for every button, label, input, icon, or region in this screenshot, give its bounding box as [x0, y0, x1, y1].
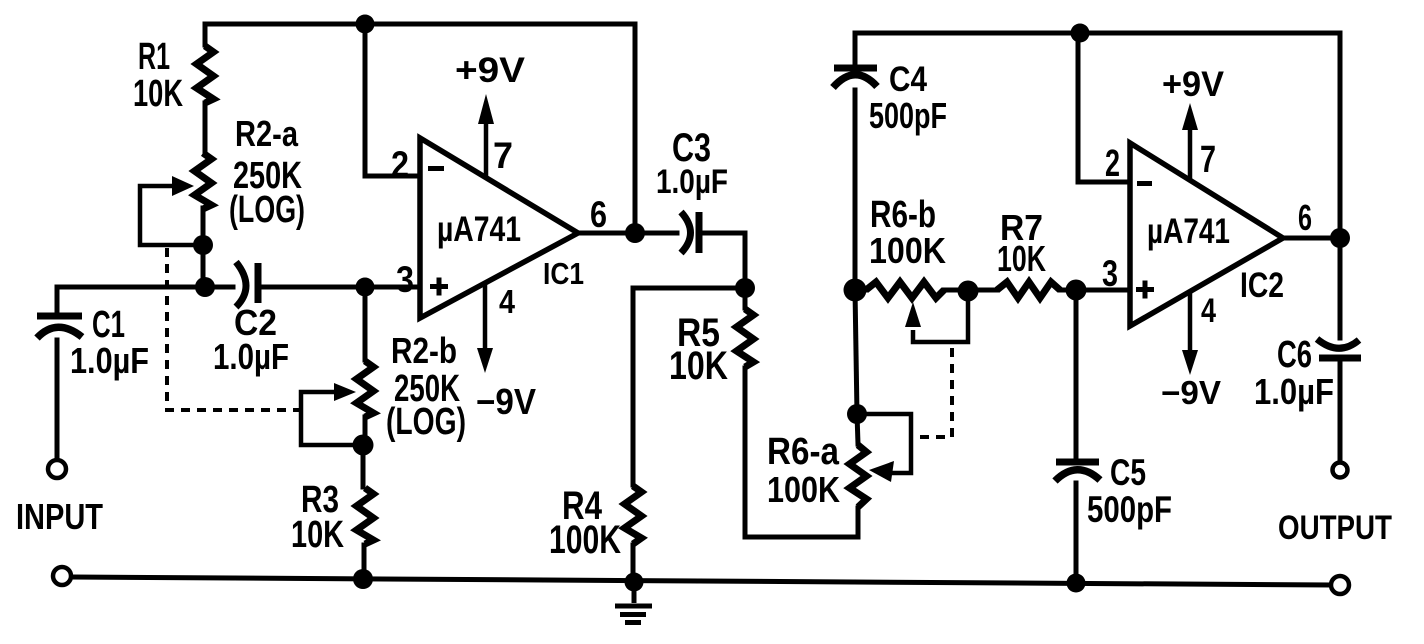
svg-text:10K: 10K: [133, 73, 183, 115]
wire R6-b right lead: [944, 288, 968, 293]
op-amp U2 IC2 triangle: [1130, 143, 1283, 326]
capacitor C3 curved plate: [681, 212, 691, 253]
node junction R6-a wiper: [847, 404, 867, 424]
svg-text:2: 2: [1105, 143, 1120, 185]
wire top feedback bus IC1: [205, 22, 635, 27]
wire IC2 feedback drop: [1338, 33, 1343, 238]
svg-text:6: 6: [1298, 197, 1312, 238]
wire R7 right lead to pin3 node: [1060, 288, 1076, 293]
node junction R6-b / R7: [958, 281, 979, 302]
svg-text:−9V: −9V: [476, 381, 536, 422]
wire IC2 output node down to C6: [1338, 238, 1343, 338]
svg-text:4: 4: [499, 283, 516, 320]
wire C6 to OUTPUT terminal: [1338, 362, 1343, 458]
wire C2 to IC1 pin 3: [261, 285, 420, 290]
svg-text:R2-a: R2-a: [235, 113, 299, 154]
potentiometer R6-b wiper arrowhead: [905, 302, 921, 327]
wire C1 top stub: [55, 287, 60, 315]
OUTPUT terminal lower: [1331, 576, 1349, 594]
wire C1 to INPUT terminal: [55, 340, 60, 458]
op-amp IC1 minus sign: [428, 166, 444, 171]
svg-text:R6-a: R6-a: [767, 431, 840, 473]
node junction R2-b wiper / R3: [353, 435, 374, 456]
capacitor C4 curved plate: [833, 75, 877, 88]
wire C4 top stub: [853, 33, 858, 64]
svg-text:10K: 10K: [291, 514, 344, 556]
resistor R5: [737, 309, 754, 367]
svg-text:µA741: µA741: [437, 210, 521, 249]
svg-text:100K: 100K: [549, 518, 621, 562]
svg-text:(LOG): (LOG): [386, 401, 466, 443]
resistor R7: [997, 282, 1060, 298]
svg-text:10K: 10K: [669, 344, 728, 388]
node junction C4 / R6-b: [844, 279, 867, 302]
potentiometer R6-b wiper arm and link to right terminal: [913, 291, 968, 342]
wire junction to R3 top: [361, 445, 366, 487]
potentiometer R2-b wiper arrowhead: [334, 383, 356, 401]
potentiometer R6-a element: [850, 445, 867, 507]
svg-text:µA741: µA741: [1147, 212, 1230, 251]
svg-text:C4: C4: [889, 60, 927, 99]
svg-text:R1: R1: [138, 36, 170, 78]
potentiometer R2-a element: [195, 153, 212, 209]
wire pin3 node to IC2 pin 3: [1076, 288, 1130, 293]
power -9V arrow IC2 pin 4: [1188, 291, 1193, 352]
OUTPUT terminal upper: [1333, 463, 1348, 478]
resistor R3: [357, 488, 374, 544]
svg-text:3: 3: [396, 259, 414, 300]
wire R6-b left lead: [855, 288, 866, 293]
svg-text:R2-b: R2-b: [391, 330, 457, 371]
wire R4 top lead: [631, 288, 636, 485]
svg-text:10K: 10K: [997, 238, 1046, 279]
wire feedback drop to IC1 output node: [633, 24, 638, 233]
potentiometer R2-b element: [357, 361, 374, 417]
svg-text:7: 7: [1200, 139, 1216, 181]
wire IC1 output to C3: [578, 231, 677, 236]
wire R5 top lead: [743, 288, 748, 308]
potentiometer R6-b element: [866, 282, 944, 298]
wire C3 to R5 column: [702, 233, 745, 288]
wire mid bus left segment (C1 to C2): [57, 285, 233, 290]
wire bottom ground bus: [73, 577, 1330, 585]
svg-text:1.0µF: 1.0µF: [656, 163, 728, 201]
wire R1 bottom to R2-a top: [203, 103, 208, 153]
power +9V arrow IC2 pin 7: [1188, 130, 1193, 180]
op-amp IC2 minus sign: [1137, 181, 1152, 186]
node junction C5 / ground bus: [1067, 574, 1086, 593]
capacitor C6 bottom plate: [1319, 355, 1361, 362]
wire R1 top lead to top bus: [203, 24, 208, 45]
wire pin3 node down to R2-b: [363, 287, 368, 360]
svg-text:+9V: +9V: [1162, 65, 1225, 104]
svg-text:100K: 100K: [767, 469, 840, 510]
wire pin3 node down to C5: [1074, 290, 1079, 459]
capacitor C4 top plate: [834, 65, 877, 72]
resistor R1: [197, 46, 214, 103]
node junction ground: [625, 573, 644, 592]
power -9V arrow IC1 pin 4: [483, 283, 488, 350]
wire R3 bottom to ground bus: [362, 545, 367, 579]
wire R6-b node down to R6-a top junction: [855, 290, 857, 414]
svg-text:(LOG): (LOG): [229, 189, 305, 231]
node junction R2-a wiper: [193, 235, 213, 255]
capacitor C1 top plate: [37, 313, 82, 320]
svg-text:100K: 100K: [869, 230, 946, 271]
wire R4 bottom to ground node: [631, 545, 636, 582]
capacitor C3 straight plate: [696, 212, 703, 253]
node junction C3 / R5: [735, 278, 755, 298]
op-amp IC2 plus sign: [1136, 281, 1154, 299]
wire R4 node to R5 node: [633, 286, 745, 291]
resistor R4: [625, 486, 642, 544]
wire top bus IC2: [855, 31, 1340, 36]
INPUT terminal lower: [53, 567, 71, 585]
svg-text:4: 4: [1201, 292, 1216, 330]
wire C4 bottom to R6-b node: [853, 90, 858, 290]
svg-text:+9V: +9V: [455, 51, 526, 90]
wire R6-a bottom lead: [856, 508, 861, 537]
capacitor C6 curved plate: [1317, 339, 1359, 348]
wire R5 bottom down and right to R6-a bottom: [745, 368, 858, 537]
power +9V arrow IC1 pin 7: [484, 124, 489, 176]
node junction top bus / pin2 branch: [356, 15, 375, 34]
dashed gang line R6-b to R6-a: [916, 348, 952, 437]
potentiometer R6-a wiper arrowhead: [869, 461, 894, 482]
node junction top right bus / pin2 branch IC2: [1071, 24, 1090, 43]
op-amp IC1 plus sign: [430, 278, 448, 296]
potentiometer R6-a wiper arm and link from top junction: [856, 414, 911, 473]
svg-text:1.0µF: 1.0µF: [1254, 371, 1334, 412]
svg-text:−9V: −9V: [1161, 374, 1221, 411]
wire IC2 output: [1283, 236, 1340, 241]
svg-text:6: 6: [590, 194, 607, 235]
capacitor C5 curved plate: [1055, 470, 1100, 481]
potentiometer R2-a wiper arrowhead: [172, 176, 194, 196]
svg-text:1.0µF: 1.0µF: [70, 340, 149, 381]
svg-text:C6: C6: [1277, 334, 1312, 376]
ground symbol: [615, 582, 652, 623]
wire R7 left lead: [968, 288, 997, 293]
wire R6-a top junction to zigzag: [857, 414, 858, 444]
svg-text:IC2: IC2: [1240, 266, 1284, 305]
svg-text:3: 3: [1102, 253, 1118, 294]
svg-text:C5: C5: [1110, 452, 1146, 493]
node junction IC1 output: [625, 223, 645, 243]
wire R2-b bottom to junction: [363, 417, 368, 445]
INPUT terminal upper: [48, 460, 66, 478]
wire node to IC2 pin 2: [1078, 33, 1130, 182]
wire node A to IC1 pin 2: [365, 24, 420, 176]
svg-text:INPUT: INPUT: [16, 496, 103, 537]
capacitor C2 curved plate: [236, 262, 246, 307]
node junction input / R2-a: [195, 277, 215, 297]
svg-text:7: 7: [493, 135, 513, 176]
potentiometer R2-b wiper arm and link: [301, 392, 363, 445]
capacitor C5 top plate: [1056, 459, 1099, 466]
node junction R7 / pin3 IC2: [1066, 280, 1087, 301]
svg-text:2: 2: [391, 144, 409, 185]
svg-text:OUTPUT: OUTPUT: [1278, 509, 1392, 547]
svg-text:IC1: IC1: [543, 256, 584, 291]
potentiometer R2-a wiper arm and link: [140, 186, 203, 245]
capacitor C2 straight plate: [255, 263, 262, 303]
dashed gang line R2-a to R2-b: [167, 248, 299, 410]
svg-text:500pF: 500pF: [1087, 489, 1172, 530]
node junction R3 / ground bus: [353, 569, 373, 589]
svg-text:1.0µF: 1.0µF: [213, 336, 289, 377]
wire C5 bottom to ground bus: [1074, 483, 1079, 583]
svg-text:500pF: 500pF: [869, 95, 947, 136]
op-amp U1 IC1 triangle: [420, 138, 578, 318]
wire R2-a bottom to input node: [201, 208, 206, 287]
node junction pin3 IC1: [356, 278, 375, 297]
node junction IC2 output: [1330, 228, 1350, 248]
capacitor C1 curved plate: [37, 327, 82, 338]
